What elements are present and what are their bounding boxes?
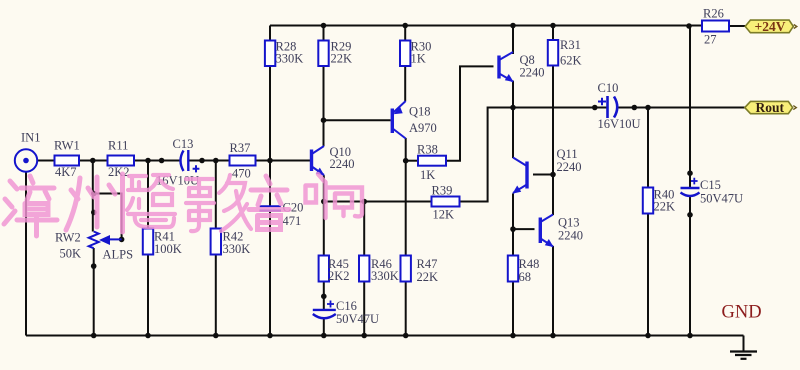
wire C15 bottom to ground rail (689, 197, 691, 336)
capacitor C15 (681, 178, 744, 206)
wire R26 to +24V tag (729, 25, 745, 27)
junction R30 top rail (402, 23, 408, 29)
junction ground rail R48 (510, 333, 516, 339)
junction Q10 emitter R45 node (321, 199, 327, 205)
resistor R40 (643, 188, 675, 214)
junction Q18 base node (321, 117, 327, 123)
svg-text:50V47U: 50V47U (336, 312, 379, 326)
resistor R31 (548, 38, 582, 68)
junction RW2 wiper corner (119, 237, 125, 243)
wire C13 to R37 (189, 160, 230, 162)
resistor R42 (211, 229, 251, 257)
ground symbol (730, 352, 757, 359)
junction Q13 base R48 node (510, 226, 516, 232)
wire R37 to Q10 base (256, 160, 311, 162)
wire R38 left (406, 160, 418, 162)
resistor R46 (359, 256, 399, 284)
junction ground rail R40 (645, 333, 651, 339)
svg-text:50V47U: 50V47U (700, 192, 743, 206)
wire RW2 bottom to ground rail (93, 248, 95, 336)
svg-text:2K2: 2K2 (328, 269, 350, 283)
wire bottom ground rail (26, 335, 744, 337)
wire C20 bottom to ground rail (269, 211, 271, 336)
svg-text:2240: 2240 (557, 160, 582, 174)
wire R28 bottom to signal node (269, 66, 271, 161)
capacitor C16 (313, 299, 379, 326)
junction RW2 top pin (91, 210, 97, 216)
svg-text:R26: R26 (703, 7, 724, 21)
junction ground rail R42 (213, 333, 219, 339)
svg-text:GND: GND (722, 303, 762, 323)
svg-text:50K: 50K (60, 247, 82, 261)
wire R48 bottom to ground rail (512, 282, 514, 336)
junction ground rail RW2 (91, 333, 97, 339)
capacitor C13 (156, 137, 199, 188)
wire rail to R30 top (404, 26, 406, 41)
wire Q10 emitter down (323, 175, 325, 201)
wire R47 bottom to ground rail (405, 282, 407, 336)
wire R46 bottom to ground rail (363, 282, 365, 336)
wire R29 bottom to node B (323, 66, 325, 121)
wire node down to R41 (147, 161, 149, 229)
wire RW1 to R11 (79, 160, 108, 162)
wire R38 node down to R47 (405, 161, 407, 256)
wire Q11 base (533, 174, 553, 176)
svg-text:27: 27 (704, 33, 717, 47)
svg-text:R38: R38 (417, 143, 438, 157)
wire R40 bottom to ground rail (647, 214, 649, 336)
resistor R47 (401, 256, 439, 285)
wire R11 to C13 (134, 160, 180, 162)
junction R26 rail node (686, 23, 692, 29)
svg-text:330K: 330K (371, 269, 399, 283)
svg-text:2240: 2240 (520, 66, 545, 80)
svg-text:22K: 22K (654, 200, 676, 214)
junction R42 node (213, 158, 219, 164)
wire R38 right to Q8 base (446, 66, 494, 160)
svg-text:1K: 1K (411, 52, 426, 66)
transistor Q11 (512, 147, 581, 194)
svg-text:1K: 1K (420, 168, 435, 182)
wire R45 bottom to C16 (323, 282, 325, 310)
resistor R26 (702, 7, 729, 47)
junction ground rail C15 (687, 333, 693, 339)
connector IN1 (15, 131, 41, 172)
watermark 漳州鹭歌音响 (4, 174, 362, 236)
wire rail to R31 top (552, 26, 554, 41)
svg-text:R39: R39 (432, 184, 453, 198)
wire rail junction down to C15 (689, 26, 691, 189)
svg-text:2240: 2240 (558, 229, 583, 243)
junction R46 top node (361, 199, 367, 205)
wire Q13 emitter to ground rail (552, 246, 554, 336)
junction C10 left pin (592, 105, 598, 111)
svg-text:R37: R37 (230, 141, 251, 155)
wire R31 bottom to Q11 base node (552, 66, 554, 175)
resistor R28 (265, 40, 303, 67)
resistor R30 (400, 40, 431, 67)
svg-text:470: 470 (232, 167, 251, 181)
svg-text:68: 68 (519, 270, 532, 284)
svg-text:22K: 22K (331, 52, 353, 66)
junction Q8-Q11 C10 node (510, 105, 516, 111)
junction C15 bottom pin (687, 212, 693, 218)
svg-text:471: 471 (283, 214, 302, 228)
wire C10 right to Rout (619, 107, 745, 109)
wire node down to C20 (269, 161, 271, 206)
junction R40 top node (645, 105, 651, 111)
svg-text:C13: C13 (173, 137, 194, 151)
junction RW1-RW2 node (90, 158, 96, 164)
svg-text:Rout: Rout (756, 100, 785, 115)
junction C13 left pin (159, 158, 165, 164)
wire Q11 emitter down (512, 194, 514, 230)
junction Q8 collector rail (510, 23, 516, 29)
svg-text:22K: 22K (417, 270, 439, 284)
wire rail to R28 top (269, 26, 271, 41)
svg-text:ALPS: ALPS (103, 248, 134, 262)
svg-text:C15: C15 (700, 178, 721, 192)
wire Q13 collector up (552, 175, 554, 216)
resistor R38 (417, 143, 446, 183)
resistor R48 (508, 256, 540, 285)
wire R41 bottom to ground rail (147, 255, 149, 336)
wire Q11 collector up (512, 108, 514, 159)
wire IN1 to RW1 (37, 160, 54, 162)
wire R30 bottom to Q18 emitter (404, 66, 406, 102)
wire node to R45 top (323, 202, 325, 256)
transistor Q8 (499, 52, 545, 82)
svg-text:330K: 330K (276, 52, 304, 66)
junction ground rail R41 (145, 333, 151, 339)
wire node to R48 top (512, 229, 514, 255)
transistor Q18 (392, 101, 436, 139)
transistor Q13 (540, 215, 583, 248)
wire Q18 collector to R38 node (405, 138, 407, 161)
svg-text:+24V: +24V (755, 19, 786, 34)
resistor R39 (432, 184, 460, 222)
junction R29 top rail (321, 23, 327, 29)
transistor Q10 (312, 145, 355, 176)
svg-text:2K2: 2K2 (108, 165, 130, 179)
svg-text:R47: R47 (417, 257, 438, 271)
junction R38 node (403, 158, 409, 164)
junction ground rail R46 (361, 333, 367, 339)
junction ground rail Q13 (550, 333, 556, 339)
wire Q10 collector (323, 120, 325, 146)
svg-text:C16: C16 (336, 299, 357, 313)
svg-text:A970: A970 (409, 121, 437, 135)
svg-text:C10: C10 (598, 81, 619, 95)
wire Q18 base (324, 119, 391, 121)
junction R28-C20-Q10 base node (267, 158, 273, 164)
svg-text:RW2: RW2 (55, 231, 81, 245)
wire node to R46 top (363, 202, 365, 256)
junction RW2 loop top (91, 191, 97, 197)
wire Rout node to R40 top (647, 108, 649, 188)
svg-text:R31: R31 (560, 38, 581, 52)
junction C15 top pin (687, 170, 693, 176)
junction R45 C16 node (321, 294, 327, 300)
wire rail to R29 top (323, 26, 325, 41)
wire C16 bottom to ground rail (323, 318, 325, 336)
junction Q11 base Q13 collector node (550, 172, 556, 178)
junction R31 top rail (550, 23, 556, 29)
wire top rail +24V (270, 25, 702, 27)
wire node down to R42 (215, 161, 217, 229)
svg-text:62K: 62K (560, 54, 582, 68)
resistor R45 (319, 256, 350, 284)
wire ground rail to ground symbol (743, 336, 745, 352)
svg-text:100K: 100K (154, 242, 182, 256)
junction ground rail R47 (403, 333, 409, 339)
svg-text:12K: 12K (433, 208, 455, 222)
output tag Rout (745, 100, 797, 115)
power tag +24V (745, 19, 797, 34)
capacitor C20 (260, 201, 304, 229)
svg-text:330K: 330K (223, 242, 251, 256)
svg-text:2240: 2240 (330, 157, 355, 171)
wire Q13 base (513, 228, 535, 230)
junction ground rail C16 (321, 333, 327, 339)
junction C13 right pin (199, 158, 205, 164)
svg-text:Q18: Q18 (409, 105, 431, 119)
resistor RW1 (54, 139, 80, 180)
svg-text:4K7: 4K7 (55, 165, 77, 179)
svg-text:R48: R48 (519, 257, 540, 271)
svg-text:R11: R11 (108, 139, 128, 153)
resistor R29 (318, 40, 352, 67)
wire R42 bottom to ground rail (215, 255, 217, 336)
svg-text:Q13: Q13 (558, 216, 580, 230)
svg-text:RW1: RW1 (54, 139, 80, 153)
wire IN1 shield down (25, 172, 27, 336)
wire emitter node to R39 (324, 201, 432, 203)
junction R41 node (145, 158, 151, 164)
resistor R37 (230, 141, 256, 181)
potentiometer RW2 (55, 231, 133, 262)
wire rail to Q8 collector (512, 26, 514, 55)
resistor R41 (143, 229, 182, 257)
resistor R11 (108, 139, 135, 180)
wire signal node down to RW2 (92, 161, 94, 232)
junction RW2 bottom pin (91, 263, 97, 269)
svg-text:Q11: Q11 (557, 147, 578, 161)
wire Q8 emitter down (512, 81, 514, 108)
wire R39 right to C10 left (460, 108, 607, 202)
wire RW2 wiper loop (94, 194, 122, 240)
junction ground rail C20 (267, 333, 273, 339)
svg-text:IN1: IN1 (21, 131, 40, 145)
junction C10 right pin (632, 105, 638, 111)
capacitor C10 (598, 81, 641, 131)
svg-text:16V10U: 16V10U (598, 117, 641, 131)
